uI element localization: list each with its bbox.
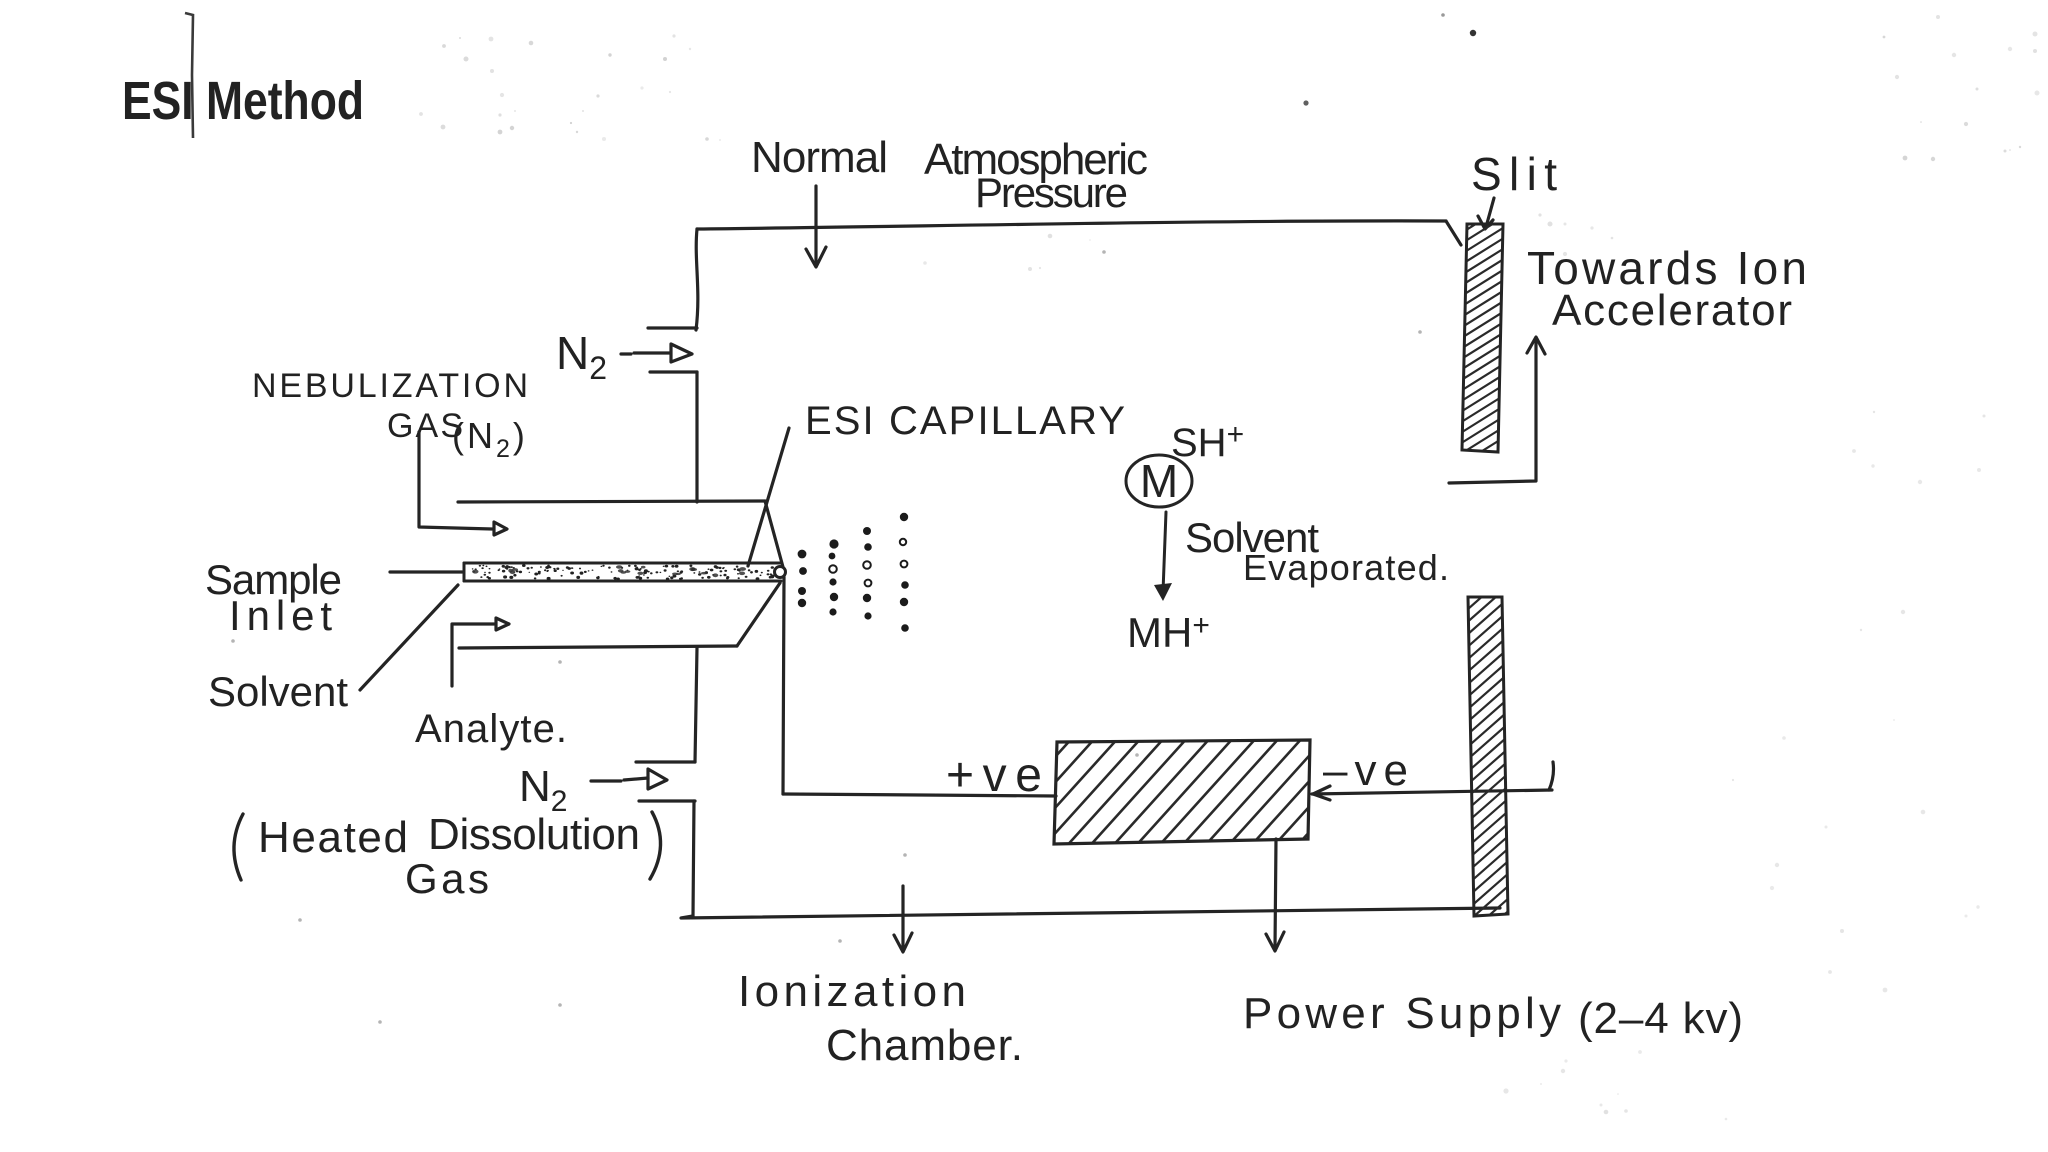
svg-text:Pressure: Pressure xyxy=(975,169,1128,216)
ESI capillary pointer line xyxy=(748,428,789,566)
wire: capillary tip to +ve supply xyxy=(783,577,784,794)
slit pointer line xyxy=(1486,198,1494,227)
arrow: towards ion accelerator xyxy=(1449,340,1536,483)
svg-text:ESI CAPILLARY: ESI CAPILLARY xyxy=(805,399,1125,443)
capillary sleeve bottom outline xyxy=(459,646,737,648)
wire: -ve lead xyxy=(1312,790,1552,794)
M ion circle xyxy=(1126,455,1192,507)
arrow: ionization chamber pointer xyxy=(901,886,904,950)
svg-text:+ve: +ve xyxy=(946,749,1042,802)
svg-text:Slit: Slit xyxy=(1471,148,1557,200)
-ve lead end tick xyxy=(1549,762,1554,790)
wire: chamber left wall above capillary sleeve xyxy=(695,372,698,502)
arrow: solvent evaporation xyxy=(1163,512,1166,592)
capillary tube (sample) with stipple xyxy=(464,563,781,581)
dark specks top-centre-right xyxy=(1470,30,1476,36)
wire: chamber left wall upper segment xyxy=(696,229,698,330)
svg-text:Solvent: Solvent xyxy=(208,668,348,715)
wire: N2 nebulizer inlet top edge xyxy=(648,326,697,329)
svg-text:N2: N2 xyxy=(556,327,607,386)
wire: chamber bottom wall xyxy=(681,908,1500,918)
svg-text:Evaporated.: Evaporated. xyxy=(1243,547,1449,588)
svg-text:Ionization: Ionization xyxy=(738,967,966,1016)
svg-text:Accelerator: Accelerator xyxy=(1552,286,1792,335)
svg-text:Dissolution: Dissolution xyxy=(428,810,640,859)
scan page-edge vertical line artifact xyxy=(185,13,193,138)
svg-text:Power Supply: Power Supply xyxy=(1243,989,1561,1038)
wire: chamber left wall below sleeve xyxy=(695,648,697,762)
svg-text:Gas: Gas xyxy=(405,855,489,902)
arrow: N2 top feed xyxy=(621,352,631,355)
capillary sleeve top outline xyxy=(458,501,765,502)
arrow: power supply pointer xyxy=(1275,839,1276,948)
svg-text:Heated: Heated xyxy=(258,813,408,862)
wire: chamber left wall bottom segment xyxy=(693,801,694,916)
wire: heated gas inlet top edge xyxy=(636,760,695,763)
svg-text:(2–4 kv): (2–4 kv) xyxy=(1578,994,1743,1043)
wire: chamber top wall xyxy=(697,221,1446,229)
svg-text:Analyte.: Analyte. xyxy=(415,707,567,751)
arrow: N2 heated gas feed xyxy=(591,779,621,782)
svg-text:Normal: Normal xyxy=(751,133,888,182)
svg-text:NEBULIZATION: NEBULIZATION xyxy=(252,367,528,405)
svg-text:MH+: MH+ xyxy=(1127,609,1210,656)
wire: heated gas inlet bottom edge xyxy=(639,799,695,802)
capillary tip nozzle xyxy=(775,567,786,578)
sample inlet pointer line xyxy=(390,570,462,573)
capillary sleeve top taper to tip xyxy=(765,501,783,567)
svg-text:SH+: SH+ xyxy=(1171,418,1244,465)
slit electrode (hatched) xyxy=(1459,194,1507,487)
arrow: analyte feed xyxy=(452,624,494,686)
arrow: normal atmospheric pressure pointer xyxy=(814,186,817,264)
solvent pointer line xyxy=(360,585,458,690)
wire: +ve lead xyxy=(783,794,1056,796)
capillary sleeve bottom taper to tip xyxy=(737,583,780,646)
wire: N2 nebulizer inlet bottom edge xyxy=(650,370,697,373)
svg-text:ESI Method: ESI Method xyxy=(122,71,364,131)
svg-text:(N2): (N2) xyxy=(452,415,528,463)
wire: top wall right end tick into slit xyxy=(1446,221,1461,245)
svg-text:Chamber.: Chamber. xyxy=(826,1021,1023,1070)
svg-text:–ve: –ve xyxy=(1323,746,1408,795)
arrow: nebulization gas feed xyxy=(419,432,492,529)
droplet spray dots xyxy=(798,513,909,632)
label: (Heated Dissolution) xyxy=(234,814,243,880)
power supply box (hatched) xyxy=(930,715,1484,870)
right counter electrode (hatched) xyxy=(1464,556,1514,963)
